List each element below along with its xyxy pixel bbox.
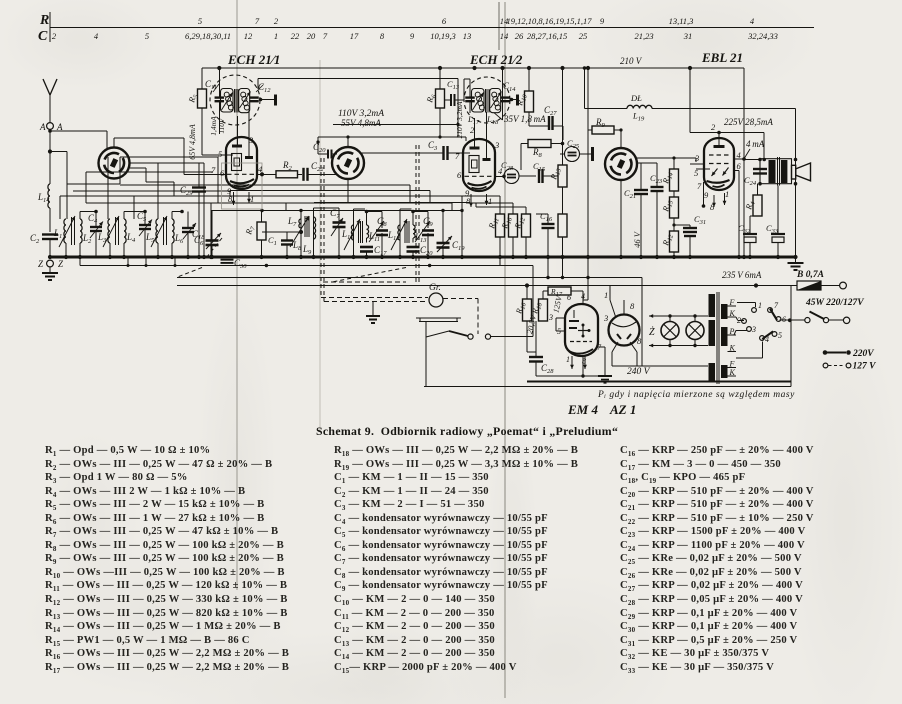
pickup stem	[425, 322, 427, 387]
svg-text:1: 1	[566, 355, 570, 364]
wire speaker down	[795, 109, 797, 258]
coil L5	[156, 219, 158, 243]
svg-text:C19: C19	[452, 240, 465, 252]
bottom line power	[424, 386, 791, 388]
output transformer frame	[760, 159, 792, 184]
svg-text:25: 25	[579, 31, 588, 41]
capacitor osc2 left	[469, 79, 471, 97]
ground bar	[604, 373, 606, 376]
wire detector cathode drop	[620, 181, 622, 258]
svg-text:220V: 220V	[852, 349, 874, 359]
mesh feeders	[318, 184, 410, 186]
svg-text:31: 31	[683, 31, 693, 41]
wire anode drop	[743, 68, 745, 257]
svg-text:R7: R7	[243, 224, 257, 237]
tap 220V	[823, 350, 828, 355]
gang dashed link	[206, 238, 222, 258]
svg-text:F: F	[729, 298, 735, 307]
svg-text:32,24,33: 32,24,33	[747, 31, 778, 41]
antenna	[43, 79, 50, 95]
parts list column 3	[620, 444, 814, 674]
svg-text:35V 1,8 mA: 35V 1,8 mA	[503, 114, 546, 124]
svg-text:9: 9	[704, 190, 709, 200]
svg-text:4: 4	[581, 292, 585, 301]
wire secondary bus	[80, 265, 533, 267]
wire A line	[177, 276, 642, 278]
tube ECH21/1 internals	[237, 116, 239, 146]
wire osc1 to triode grid	[258, 78, 458, 80]
svg-text:ECH 21⁄2: ECH 21⁄2	[469, 52, 523, 67]
IF2 coil L11	[367, 225, 369, 238]
resistor R14	[670, 169, 679, 191]
heater 240V	[612, 365, 708, 367]
svg-text:C: C	[38, 29, 48, 44]
svg-text:5: 5	[198, 16, 202, 26]
wire osc2 aux drop	[502, 68, 504, 120]
selector leads	[754, 303, 756, 308]
svg-text:1: 1	[274, 31, 278, 41]
svg-text:26: 26	[515, 31, 524, 41]
switch	[425, 326, 427, 337]
svg-text:L6: L6	[174, 233, 184, 245]
trimmer C4	[90, 226, 102, 228]
wire antenna to mixer socket	[50, 130, 107, 132]
svg-text:210V 3,2mA: 210V 3,2mA	[455, 101, 464, 138]
capacitor C14	[500, 96, 510, 98]
svg-text:7: 7	[697, 181, 702, 191]
svg-text:B 0,7A: B 0,7A	[796, 270, 824, 280]
coil L3	[108, 219, 110, 243]
svg-text:6: 6	[220, 168, 225, 178]
tube EM4 internals	[573, 310, 575, 318]
svg-text:C25: C25	[567, 138, 580, 150]
svg-text:110V: 110V	[217, 117, 226, 134]
winding taps	[728, 305, 737, 307]
oscillator coil assembly 1 shield	[210, 75, 260, 125]
svg-text:3: 3	[751, 325, 756, 334]
coil osc1 loops	[224, 92, 229, 97]
svg-text:5: 5	[557, 327, 561, 336]
arrow variable L1	[59, 216, 75, 247]
svg-text:L9: L9	[302, 244, 312, 256]
wire top line	[318, 136, 466, 138]
svg-text:L2: L2	[82, 233, 92, 245]
node bus osc1	[217, 66, 221, 70]
socket tube socket1	[99, 148, 130, 179]
svg-text:4 mA: 4 mA	[746, 139, 765, 149]
socket tube socket2	[332, 147, 364, 179]
svg-text:55V 4,8mA: 55V 4,8mA	[341, 118, 381, 128]
capacitor C11	[218, 69, 220, 97]
coil osc2 former left	[472, 89, 485, 113]
AZ1 wires	[610, 300, 616, 318]
power bus heavy	[527, 381, 791, 383]
wire antenna down	[49, 130, 51, 185]
tube EM4 envelope	[565, 304, 598, 356]
svg-text:R: R	[39, 13, 49, 28]
EM4 stubs	[556, 317, 565, 319]
coil osc2 former right	[490, 89, 501, 113]
ground	[49, 267, 51, 272]
capacitor C13	[450, 94, 452, 106]
svg-text:EM 4: EM 4	[567, 402, 598, 417]
svg-text:C24: C24	[744, 175, 757, 187]
svg-text:127 V: 127 V	[853, 362, 877, 372]
wire volume feed	[462, 195, 500, 197]
ground	[795, 257, 797, 262]
resistor R16	[509, 214, 518, 237]
svg-text:Z: Z	[58, 259, 64, 269]
capacitor C2	[42, 233, 58, 235]
dashed gang line 1	[320, 158, 322, 298]
wire down caps	[640, 163, 642, 190]
resistor R2	[276, 171, 298, 178]
resistor R16b	[523, 299, 532, 321]
wire chassis bus	[50, 256, 797, 259]
arrow L7 variable	[290, 216, 309, 247]
resistor R13	[558, 165, 567, 187]
output transformer windings	[769, 160, 776, 183]
trimmer C5	[139, 224, 151, 226]
wire step	[130, 167, 146, 169]
coil osc1 former left	[221, 89, 234, 113]
svg-text:2: 2	[274, 16, 279, 26]
resistor R18	[539, 299, 548, 321]
wire socket to tube pins	[114, 137, 184, 139]
trimmer C8	[376, 229, 388, 232]
svg-text:L19: L19	[632, 111, 645, 123]
capacitor C12	[249, 96, 259, 98]
svg-text:C4: C4	[88, 213, 98, 225]
arrow variable osc1 left	[222, 93, 233, 111]
terminal A	[47, 123, 54, 130]
svg-text:14: 14	[500, 31, 509, 41]
wires IF1	[300, 211, 302, 258]
arrow variable L5	[151, 216, 167, 247]
wires EM4 top	[525, 283, 529, 287]
shield tie	[259, 98, 263, 102]
resistor R12b	[670, 231, 679, 252]
svg-text:28,27,16,15: 28,27,16,15	[527, 31, 567, 41]
dashed leads	[323, 281, 406, 283]
svg-text:EBL 21: EBL 21	[701, 50, 743, 65]
svg-text:1: 1	[725, 189, 729, 199]
svg-text:3: 3	[603, 313, 608, 323]
resistor R6	[436, 89, 445, 108]
svg-text:C28: C28	[541, 363, 554, 375]
svg-text:C3: C3	[428, 140, 438, 152]
core osc2	[484, 89, 486, 113]
resistor R7	[257, 222, 266, 240]
svg-text:C33: C33	[766, 223, 779, 235]
svg-text:C31: C31	[694, 214, 706, 226]
shield tie	[510, 98, 514, 102]
svg-text:17: 17	[350, 31, 359, 41]
capacitor C33	[777, 186, 779, 234]
svg-text:C29: C29	[180, 185, 193, 197]
capacitor C16	[542, 223, 555, 225]
tube ECH21/1 envelope	[226, 137, 257, 189]
resistor R9	[592, 126, 614, 134]
pin stubs	[495, 175, 505, 177]
svg-text:C17: C17	[374, 245, 387, 257]
wires IF2	[353, 209, 355, 257]
resistor R17	[548, 287, 571, 295]
coil bottoms to bus	[65, 243, 67, 257]
wire HT bus 210V	[202, 67, 744, 69]
svg-text:46 V: 46 V	[632, 230, 642, 248]
svg-text:K: K	[729, 309, 736, 318]
svg-text:1: 1	[758, 301, 762, 310]
svg-text:225V 28,5mA: 225V 28,5mA	[724, 117, 773, 127]
capacitor C20	[407, 246, 420, 249]
parts list column 1	[45, 444, 289, 674]
speaker	[792, 165, 796, 179]
wire	[49, 208, 51, 232]
wire IF mesh top	[211, 210, 463, 212]
IF3 coil L13	[413, 225, 415, 238]
heater arrows EM4	[571, 356, 573, 369]
oscillator coil assembly 2 shield	[464, 77, 510, 123]
variable capacitor C18	[206, 239, 219, 242]
coil osc1 former right	[239, 89, 250, 113]
svg-text:C27: C27	[544, 105, 557, 117]
svg-text:235 V 6mA: 235 V 6mA	[722, 270, 762, 280]
svg-text:6: 6	[442, 16, 447, 26]
core	[71, 217, 73, 245]
wire	[298, 173, 303, 175]
svg-text:10,19,3: 10,19,3	[430, 31, 456, 41]
terminal Z	[47, 260, 54, 267]
svg-text:K: K	[729, 368, 736, 377]
svg-text:ECH 21⁄1: ECH 21⁄1	[227, 52, 280, 67]
wire to ground	[536, 375, 598, 377]
heater arrows	[470, 194, 472, 207]
svg-text:DŁ: DŁ	[630, 93, 642, 103]
wire EM4 feeders	[547, 257, 549, 278]
choke feed	[584, 68, 586, 109]
pickup plate	[416, 317, 461, 319]
coil osc2 loops	[475, 92, 480, 97]
arrow variable osc2 left	[473, 93, 484, 111]
resistor R11	[496, 214, 505, 237]
svg-text:9: 9	[410, 31, 415, 41]
resistor R10	[525, 91, 534, 112]
svg-text:6: 6	[567, 293, 571, 302]
svg-text:C22: C22	[311, 161, 324, 173]
capacitor C15	[538, 169, 540, 183]
wire B line	[177, 285, 797, 287]
svg-text:7: 7	[255, 16, 260, 26]
svg-text:6: 6	[457, 170, 462, 180]
IF3 coil L12	[398, 225, 400, 240]
capacitor C27	[548, 116, 550, 130]
capacitor C25 trimmer circle	[565, 147, 580, 162]
svg-text:5: 5	[218, 149, 222, 159]
capacitor C32	[750, 215, 758, 217]
coil L4	[124, 219, 126, 243]
capacitor C1	[281, 239, 293, 241]
resistor R4	[753, 195, 762, 216]
arrows variable IF3	[391, 219, 407, 250]
wire right drop	[461, 203, 463, 258]
mains switch	[792, 319, 805, 321]
svg-text:19,12,10,8,16,19,15,1,17: 19,12,10,8,16,19,15,1,17	[507, 16, 593, 26]
capacitor C3	[442, 146, 444, 160]
capacitor C22	[302, 168, 304, 181]
arrow variable L3	[103, 216, 119, 247]
svg-text:Ż: Ż	[649, 326, 655, 338]
resistor R8	[528, 140, 551, 148]
svg-text:7: 7	[323, 31, 328, 41]
capacitor C6	[182, 227, 194, 229]
svg-text:13,11,3: 13,11,3	[669, 16, 694, 26]
core	[163, 217, 165, 245]
svg-text:45W 220/127V: 45W 220/127V	[805, 298, 864, 308]
svg-text:8: 8	[380, 31, 385, 41]
variable capacitor C19	[437, 242, 450, 245]
capacitor C28 trimmer circle	[504, 169, 519, 184]
svg-text:3: 3	[494, 140, 499, 150]
parts list column 2	[334, 444, 578, 674]
coil L1	[64, 219, 66, 243]
dashed gang line 2	[415, 145, 417, 282]
svg-text:12: 12	[244, 31, 253, 41]
svg-text:65V 4,8mA: 65V 4,8mA	[188, 124, 197, 160]
svg-text:C16: C16	[540, 211, 553, 223]
resistor R5	[198, 89, 207, 108]
svg-text:Z: Z	[38, 259, 44, 269]
svg-text:21,23: 21,23	[634, 31, 653, 41]
svg-text:240 V: 240 V	[627, 367, 651, 377]
capacitor C21	[634, 189, 648, 191]
svg-text:C20: C20	[420, 245, 433, 257]
node dots secondary bus	[265, 264, 268, 267]
IF1 coil L7	[299, 219, 301, 228]
lamp Z1	[661, 322, 679, 340]
shield box	[222, 163, 263, 209]
rotary voltage selector	[752, 308, 757, 313]
resistor R13b	[558, 214, 567, 237]
lamp Z2	[686, 322, 704, 340]
resistor R15	[670, 197, 679, 218]
arrows variable IF2	[344, 219, 360, 250]
tube AZ1	[609, 315, 640, 346]
svg-text:C2: C2	[30, 233, 40, 245]
svg-text:L7: L7	[287, 216, 297, 228]
ground	[372, 302, 374, 315]
core	[115, 217, 117, 245]
resistor R12	[522, 214, 531, 237]
svg-text:K: K	[729, 343, 736, 352]
coil L2	[80, 219, 82, 243]
socket tube detector	[605, 148, 637, 180]
svg-text:3: 3	[694, 153, 699, 163]
wire pair tops	[79, 212, 81, 220]
trimmer C7	[338, 208, 340, 223]
wire mesh	[50, 151, 67, 153]
svg-text:5: 5	[145, 31, 149, 41]
pin stubs	[734, 158, 744, 160]
IF1 coil L9	[314, 217, 316, 239]
svg-text:7: 7	[774, 301, 779, 310]
parts list title	[316, 424, 616, 439]
svg-text:A: A	[39, 122, 46, 132]
svg-text:210 V: 210 V	[620, 56, 643, 66]
svg-text:Gr.: Gr.	[429, 283, 441, 293]
tube ECH21/2 internals	[474, 118, 476, 148]
IF1 core	[304, 216, 306, 237]
node antenna junction	[48, 149, 52, 153]
secondary winding	[721, 304, 728, 319]
svg-text:6,29,18,30,11: 6,29,18,30,11	[185, 31, 231, 41]
IF3 core	[404, 221, 406, 243]
tap 127V	[823, 363, 828, 368]
wires IF3	[399, 209, 401, 257]
svg-text:R8: R8	[532, 147, 543, 159]
svg-text:5: 5	[778, 331, 782, 340]
svg-text:C1: C1	[268, 235, 277, 247]
tube ECH21/2 envelope	[463, 139, 495, 191]
svg-text:C28: C28	[501, 160, 514, 172]
svg-text:20: 20	[307, 31, 316, 41]
svg-text:1: 1	[604, 290, 608, 300]
coil L6	[172, 219, 174, 243]
IF2 core	[358, 221, 360, 243]
svg-text:L4: L4	[126, 232, 136, 244]
arrow variable osc2 right	[491, 92, 502, 109]
pin stubs	[202, 154, 233, 156]
svg-text:13: 13	[463, 31, 472, 41]
capacitor C17	[360, 246, 373, 249]
core osc1	[233, 89, 235, 113]
wire	[519, 175, 536, 177]
svg-text:6: 6	[782, 315, 786, 324]
arrow variable osc1 right	[240, 92, 251, 109]
svg-text:AZ 1: AZ 1	[609, 402, 636, 417]
capacitor C30	[221, 259, 234, 261]
svg-text:2: 2	[711, 122, 716, 132]
tube EBL21 internals	[718, 133, 720, 147]
choke DL L19	[585, 108, 628, 110]
svg-text:3: 3	[248, 135, 253, 145]
svg-text:Pᵢ gdy i napięcia mierzone są: Pᵢ gdy i napięcia mierzone są względem m…	[597, 390, 795, 400]
svg-text:22: 22	[291, 31, 300, 41]
IF2 coil L10	[351, 225, 353, 240]
wire right drop	[790, 286, 792, 387]
capacitor C23	[651, 186, 664, 188]
heater arrows	[233, 192, 235, 205]
svg-text:P: P	[729, 327, 735, 336]
shield bar	[591, 147, 594, 161]
capacitor C24	[759, 160, 761, 168]
wire	[49, 239, 51, 257]
heater arrows	[713, 195, 715, 207]
tube EBL21 envelope	[704, 138, 734, 190]
svg-text:1: 1	[488, 196, 492, 206]
svg-text:C30: C30	[234, 258, 247, 270]
gang dashed link 2	[333, 268, 406, 282]
capacitor C28b	[535, 321, 537, 355]
power transformer core	[716, 292, 718, 384]
trimmer C9	[422, 229, 434, 232]
terminal mains 1	[821, 285, 840, 287]
wire det out	[637, 157, 696, 159]
svg-text:C15: C15	[533, 161, 546, 173]
lamp rails	[649, 315, 660, 317]
selector arms	[770, 309, 777, 320]
gramo jack	[429, 293, 443, 307]
